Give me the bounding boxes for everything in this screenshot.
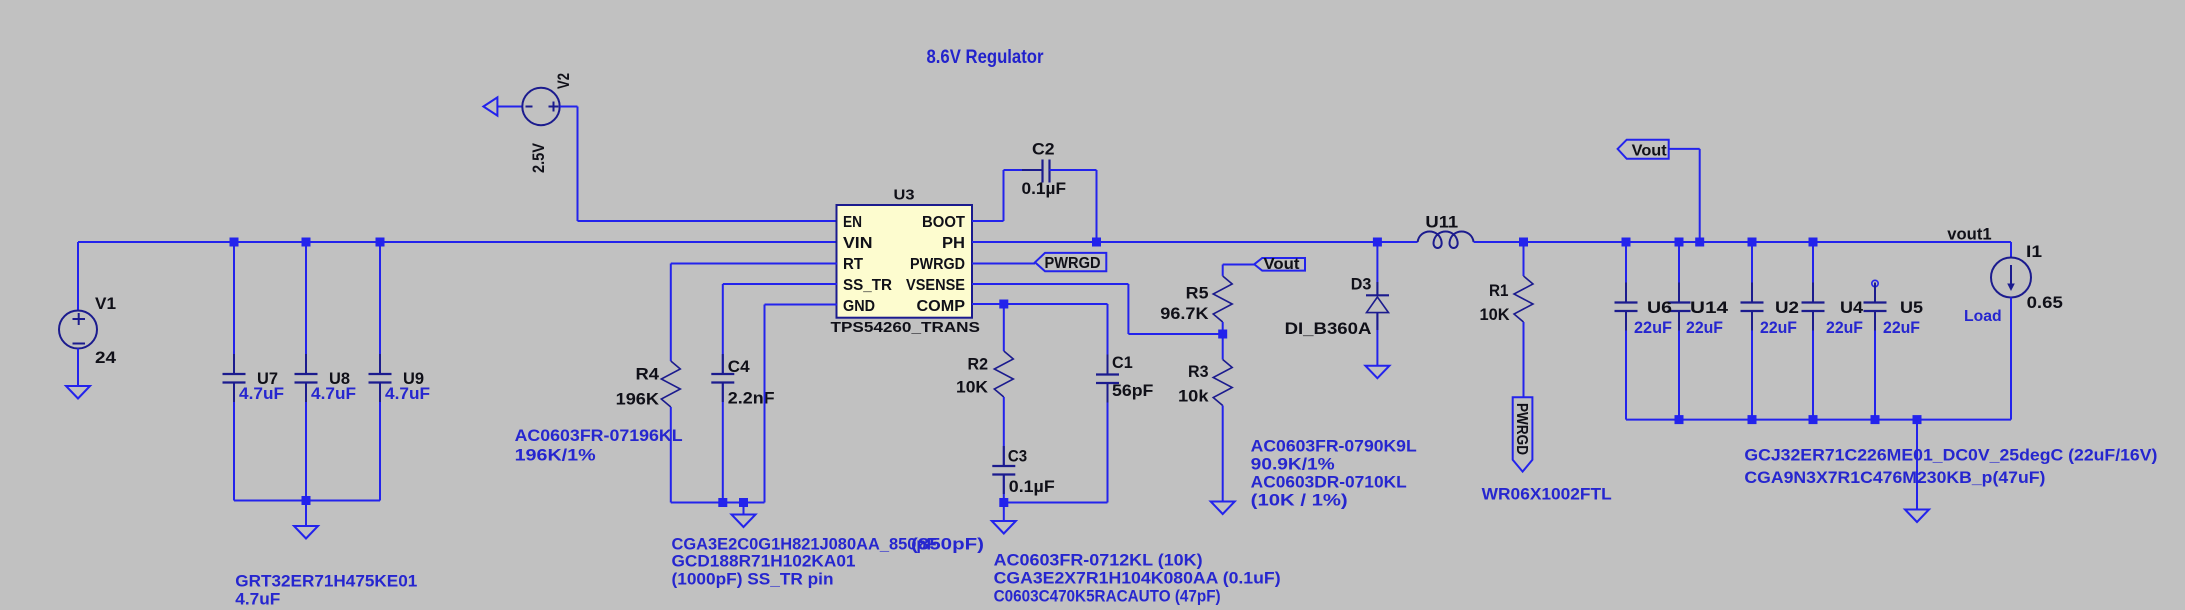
wire U8 bottom bbox=[305, 383, 307, 501]
wire VSENSE to divider bbox=[972, 283, 1128, 285]
wire PWRGD pin to port bbox=[972, 263, 1035, 265]
wire GND pin down bbox=[765, 304, 838, 306]
voltage source V1 bbox=[59, 311, 97, 349]
resistor R1 bbox=[1514, 276, 1533, 322]
svg-text:U3: U3 bbox=[894, 187, 915, 204]
node junction U2 top bbox=[1748, 238, 1757, 247]
node junction U9 bbox=[376, 238, 385, 247]
wire rail after inductor bbox=[1474, 241, 2011, 243]
svg-text:22uF: 22uF bbox=[1760, 318, 1797, 337]
svg-text:10K: 10K bbox=[1480, 305, 1511, 324]
svg-text:0.1µF: 0.1µF bbox=[1009, 477, 1055, 496]
svg-text:C3: C3 bbox=[1008, 446, 1027, 465]
net port PWRGD bbox=[1035, 253, 1106, 271]
svg-text:U6: U6 bbox=[1647, 298, 1672, 317]
svg-text:22uF: 22uF bbox=[1686, 318, 1723, 337]
wire to ground C3 bbox=[1003, 503, 1005, 522]
wire to ground caps bbox=[305, 501, 307, 527]
svg-text:D3: D3 bbox=[1351, 275, 1372, 294]
wire R1 to port bbox=[1523, 322, 1525, 397]
wire arrow to V2 bbox=[497, 106, 522, 108]
wire U14 top bbox=[1678, 242, 1680, 303]
svg-text:C0603C470K5RACAUTO (47pF): C0603C470K5RACAUTO (47pF) bbox=[994, 587, 1221, 606]
svg-text:196K/1%: 196K/1% bbox=[515, 446, 596, 465]
svg-text:GCD188R71H102KA01: GCD188R71H102KA01 bbox=[672, 552, 856, 571]
svg-text:AC0603DR-0710KL: AC0603DR-0710KL bbox=[1251, 473, 1407, 492]
wire U8 top bbox=[305, 242, 307, 374]
node junction bottom 1875 bbox=[1871, 415, 1880, 424]
wire U6 top bbox=[1625, 242, 1627, 303]
node junction U4 top bbox=[1809, 238, 1818, 247]
svg-text:10k: 10k bbox=[1178, 387, 1209, 406]
wire C1 top bbox=[1107, 304, 1109, 375]
op-amp U3 body bbox=[837, 205, 973, 318]
wire input rail VIN bbox=[78, 241, 837, 243]
voltage source V2 bbox=[522, 88, 559, 125]
resistor R2 bbox=[994, 351, 1013, 397]
svg-text:10K: 10K bbox=[956, 377, 989, 396]
capacitor U14 bbox=[1678, 283, 1680, 303]
wire I1 bottom bbox=[2010, 298, 2012, 420]
capacitor U2 bbox=[1751, 283, 1753, 303]
svg-text:VSENSE: VSENSE bbox=[906, 277, 965, 294]
wire U4 bottom bbox=[1812, 311, 1814, 420]
wire RT to R4 bbox=[671, 263, 837, 265]
node junction C3 bottom bbox=[999, 498, 1008, 507]
svg-text:R3: R3 bbox=[1188, 362, 1209, 381]
capacitor U4 bbox=[1812, 283, 1814, 303]
wire U7 bottom bbox=[233, 383, 235, 501]
svg-text:4.7uF: 4.7uF bbox=[385, 384, 430, 403]
wire V1 top to input rail bbox=[77, 242, 79, 311]
capacitor C4 bbox=[722, 354, 724, 374]
svg-text:56pF: 56pF bbox=[1112, 381, 1153, 400]
svg-text:22uF: 22uF bbox=[1634, 318, 1672, 337]
wire rail to I1 bbox=[2010, 242, 2012, 258]
wire R3 bottom bbox=[1222, 406, 1224, 502]
svg-text:CGA9N3X7R1C476M230KB_p(47uF): CGA9N3X7R1C476M230KB_p(47uF) bbox=[1744, 468, 2045, 487]
svg-text:GND: GND bbox=[843, 298, 875, 315]
svg-text:U2: U2 bbox=[1775, 298, 1799, 317]
diode D3 bbox=[1366, 294, 1389, 296]
svg-text:Vout: Vout bbox=[1632, 142, 1668, 159]
svg-text:R1: R1 bbox=[1489, 281, 1509, 300]
svg-text:SS_TR: SS_TR bbox=[843, 277, 892, 294]
svg-text:V2: V2 bbox=[554, 73, 573, 89]
wire caps bottom rail bbox=[234, 500, 380, 502]
svg-text:AC0603FR-0712KL (10K): AC0603FR-0712KL (10K) bbox=[994, 551, 1203, 570]
svg-text:I1: I1 bbox=[2026, 242, 2042, 261]
wire output bottom rail bbox=[1626, 419, 2011, 421]
svg-text:(850pF): (850pF) bbox=[911, 535, 984, 554]
capacitor C1 bbox=[1107, 355, 1109, 375]
node junction U6 top bbox=[1622, 238, 1631, 247]
svg-text:24: 24 bbox=[95, 348, 117, 367]
net port Vout mid bbox=[1254, 258, 1305, 271]
wire PH rail to inductor bbox=[972, 241, 1418, 243]
svg-text:U14: U14 bbox=[1690, 298, 1729, 317]
wire D3 top bbox=[1376, 242, 1378, 295]
svg-text:96.7K: 96.7K bbox=[1160, 304, 1209, 323]
wire D3 bottom bbox=[1376, 313, 1378, 366]
svg-text:196K: 196K bbox=[616, 390, 660, 409]
wire C3 bottom bbox=[1003, 475, 1005, 503]
no-connect pin U5 bbox=[1872, 280, 1878, 286]
svg-text:U5: U5 bbox=[1900, 298, 1923, 317]
svg-text:COMP: COMP bbox=[917, 298, 966, 315]
input port arrow V2 bbox=[483, 97, 497, 115]
svg-text:PWRGD: PWRGD bbox=[1513, 403, 1530, 455]
current source I1 bbox=[1991, 258, 2031, 298]
svg-text:22uF: 22uF bbox=[1826, 318, 1863, 337]
node junction VSENSE divider bbox=[1218, 330, 1227, 339]
wire R2 top bbox=[1003, 304, 1005, 351]
wire U9 bottom bbox=[379, 383, 381, 501]
svg-text:90.9K/1%: 90.9K/1% bbox=[1251, 455, 1335, 474]
capacitor C2 bbox=[1022, 169, 1043, 171]
svg-text:AC0603FR-07196KL: AC0603FR-07196KL bbox=[515, 426, 683, 445]
ground under D3 bbox=[1365, 366, 1389, 379]
node junction R1 bbox=[1519, 238, 1528, 247]
node junction bottom 1752 bbox=[1748, 415, 1757, 424]
svg-text:VIN: VIN bbox=[843, 235, 873, 252]
net port PWRGD down bbox=[1513, 397, 1533, 471]
svg-text:DI_B360A: DI_B360A bbox=[1285, 319, 1372, 338]
svg-text:2.2nF: 2.2nF bbox=[728, 388, 775, 407]
svg-text:GRT32ER71H475KE01: GRT32ER71H475KE01 bbox=[235, 572, 417, 591]
node junction U7 bbox=[230, 238, 239, 247]
capacitor U6 bbox=[1625, 283, 1627, 303]
wire C3 C1 bottom rail bbox=[1004, 502, 1108, 504]
wire to ground R4C4 bbox=[743, 503, 745, 515]
wire U14 bottom bbox=[1678, 311, 1680, 420]
svg-text:C1: C1 bbox=[1112, 353, 1133, 372]
node junction C4 bottom bbox=[718, 498, 727, 507]
capacitor U5 bbox=[1874, 283, 1876, 303]
node junction bottom 1679 bbox=[1675, 415, 1684, 424]
capacitor U7 bbox=[233, 354, 235, 374]
ground under output caps bbox=[1905, 510, 1929, 523]
wire V2 to EN bbox=[560, 106, 578, 108]
wire R1 top bbox=[1523, 242, 1525, 276]
wire U5 bottom bbox=[1874, 311, 1876, 420]
wire BOOT to C2 bbox=[972, 220, 1004, 222]
node junction U8 bbox=[302, 238, 311, 247]
wire U5 top bbox=[1874, 287, 1876, 303]
ground under V1 bbox=[66, 386, 90, 399]
svg-text:22uF: 22uF bbox=[1883, 318, 1920, 337]
node junction U14 top bbox=[1675, 238, 1684, 247]
wire U7 top bbox=[233, 242, 235, 374]
svg-text:C2: C2 bbox=[1032, 140, 1055, 159]
capacitor U8 bbox=[305, 354, 307, 374]
net port Vout top bbox=[1618, 140, 1669, 159]
svg-text:vout1: vout1 bbox=[1947, 225, 1991, 244]
resistor R3 bbox=[1213, 360, 1232, 406]
ground under input caps bbox=[294, 526, 318, 539]
node junction C2 PH bbox=[1092, 238, 1101, 247]
svg-text:PH: PH bbox=[942, 235, 965, 252]
wire V1 bottom to ground bbox=[77, 349, 79, 387]
svg-text:Vout: Vout bbox=[1264, 256, 1301, 273]
node junction bottom 1917 bbox=[1913, 415, 1922, 424]
node junction bottom 1813 bbox=[1809, 415, 1818, 424]
node junction caps ground bbox=[302, 496, 311, 505]
capacitor C3 bbox=[1003, 446, 1005, 466]
wire U2 bottom bbox=[1751, 311, 1753, 420]
ground under R3 bbox=[1211, 502, 1235, 515]
svg-text:TPS54260_TRANS: TPS54260_TRANS bbox=[831, 319, 981, 336]
svg-text:GCJ32ER71C226ME01_DC0V_25degC: GCJ32ER71C226ME01_DC0V_25degC (22uF/16V) bbox=[1744, 446, 2157, 465]
wire U6 bottom bbox=[1625, 311, 1627, 420]
svg-text:EN: EN bbox=[843, 214, 862, 231]
node junction Vout rail bbox=[1695, 238, 1704, 247]
svg-text:R4: R4 bbox=[636, 365, 660, 384]
svg-text:U11: U11 bbox=[1425, 213, 1458, 232]
svg-text:AC0603FR-0790K9L: AC0603FR-0790K9L bbox=[1251, 437, 1417, 456]
wire Vout port to rail bbox=[1669, 148, 1700, 150]
svg-text:BOOT: BOOT bbox=[922, 214, 965, 231]
wire C1 bottom bbox=[1107, 384, 1109, 503]
capacitor U9 bbox=[379, 354, 381, 374]
svg-text:2.5V: 2.5V bbox=[529, 142, 548, 173]
ground under C3 bbox=[992, 521, 1016, 534]
resistor R4 bbox=[661, 361, 680, 407]
svg-text:0.65: 0.65 bbox=[2027, 293, 2063, 312]
node junction R2 top bbox=[999, 300, 1008, 309]
svg-text:(10K / 1%): (10K / 1%) bbox=[1251, 491, 1348, 510]
svg-text:0.1µF: 0.1µF bbox=[1022, 179, 1067, 198]
node junction gnd attach bbox=[739, 498, 748, 507]
wire R5 bottom bbox=[1222, 322, 1224, 360]
svg-text:(1000pF) SS_TR pin: (1000pF) SS_TR pin bbox=[672, 570, 834, 589]
wire C2 to PH rail bbox=[1050, 169, 1097, 171]
wire R4 bottom bbox=[670, 407, 672, 503]
node junction D3 bbox=[1373, 238, 1382, 247]
ground under R4 C4 bbox=[732, 515, 756, 528]
svg-text:8.6V Regulator: 8.6V Regulator bbox=[927, 47, 1045, 68]
svg-text:RT: RT bbox=[843, 256, 863, 273]
svg-text:PWRGD: PWRGD bbox=[910, 256, 965, 273]
svg-text:CGA3E2X7R1H104K080AA (0.1uF): CGA3E2X7R1H104K080AA (0.1uF) bbox=[994, 569, 1281, 588]
wire to ground output bbox=[1916, 420, 1918, 510]
wire R4 C4 GND bottom rail bbox=[671, 502, 765, 504]
svg-text:4.7uF: 4.7uF bbox=[311, 384, 356, 403]
svg-text:V1: V1 bbox=[95, 294, 116, 313]
svg-text:U4: U4 bbox=[1840, 298, 1864, 317]
wire R5 top to Vout port bbox=[1222, 265, 1224, 276]
wire SS_TR to C4 bbox=[723, 283, 837, 285]
svg-text:C4: C4 bbox=[728, 357, 750, 376]
resistor R5 bbox=[1213, 276, 1232, 322]
svg-text:WR06X1002FTL: WR06X1002FTL bbox=[1482, 485, 1612, 504]
wire C4 bottom bbox=[722, 383, 724, 503]
svg-text:PWRGD: PWRGD bbox=[1045, 255, 1101, 272]
svg-text:Load: Load bbox=[1964, 308, 2002, 325]
svg-text:R2: R2 bbox=[968, 355, 989, 374]
svg-text:4.7uF: 4.7uF bbox=[235, 590, 280, 609]
wire U9 top bbox=[379, 242, 381, 374]
wire COMP rail bbox=[972, 303, 1108, 305]
inductor U11 bbox=[1418, 232, 1474, 249]
svg-text:R5: R5 bbox=[1186, 284, 1209, 303]
wire U2 top bbox=[1751, 242, 1753, 303]
wire R2 to C3 bbox=[1003, 397, 1005, 466]
svg-text:4.7uF: 4.7uF bbox=[239, 384, 284, 403]
wire U4 top bbox=[1812, 242, 1814, 303]
